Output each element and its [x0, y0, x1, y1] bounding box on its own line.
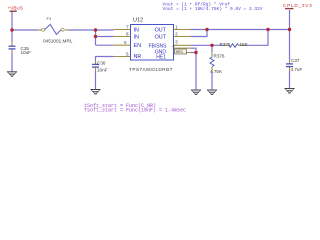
svg-text:R375: R375 [220, 42, 231, 47]
svg-text:+VBUS: +VBUS [8, 6, 24, 11]
svg-text:TPS7A8001DRBT: TPS7A8001DRBT [129, 67, 173, 72]
svg-text:4.7uF: 4.7uF [291, 67, 303, 72]
svg-text:3: 3 [175, 40, 178, 45]
svg-text:Tsoft_start = Func(10nF) = 1.4: Tsoft_start = Func(10nF) = 1.4msec [84, 107, 186, 113]
svg-text:IN: IN [134, 27, 139, 33]
svg-text:4.75K: 4.75K [210, 69, 223, 74]
svg-text:HE1: HE1 [176, 50, 183, 54]
svg-text:10uF: 10uF [21, 50, 32, 55]
svg-text:R376: R376 [214, 53, 225, 58]
svg-text:NR: NR [134, 54, 142, 60]
svg-text:C37: C37 [291, 58, 300, 63]
svg-text:Vout = (1 + 15K/4.75K) * 0.8V: Vout = (1 + 15K/4.75K) * 0.8V = 3.32V [163, 6, 263, 12]
svg-text:C36: C36 [97, 61, 106, 66]
svg-text:HE1: HE1 [156, 54, 166, 60]
svg-text:F1: F1 [47, 16, 52, 21]
svg-text:IN: IN [134, 34, 139, 40]
svg-text:OUT: OUT [155, 27, 167, 33]
svg-text:EN: EN [134, 43, 142, 49]
svg-text:FB/SNS: FB/SNS [148, 43, 167, 49]
svg-text:CPLD_3V3: CPLD_3V3 [283, 3, 312, 8]
svg-text:OUT: OUT [155, 34, 167, 40]
svg-text:10nF: 10nF [97, 68, 108, 73]
svg-text:U12: U12 [133, 18, 143, 24]
svg-text:5: 5 [124, 40, 127, 45]
svg-text:0451001.MRL: 0451001.MRL [43, 39, 73, 44]
svg-text:15K: 15K [240, 42, 249, 47]
